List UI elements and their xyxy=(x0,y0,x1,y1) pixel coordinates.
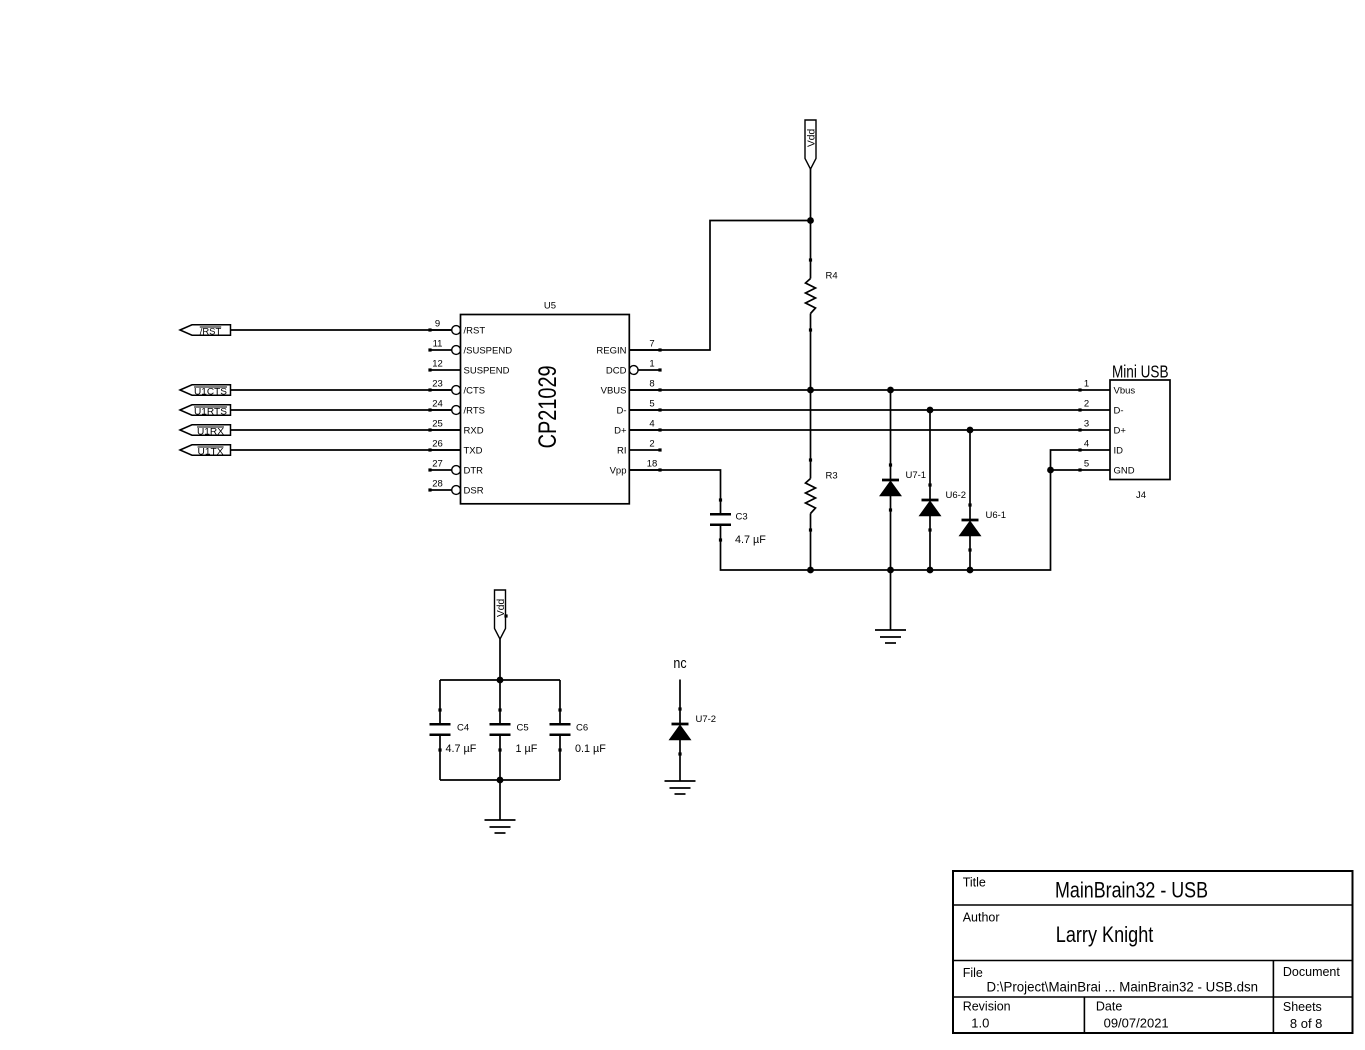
svg-text:VBUS: VBUS xyxy=(601,385,627,396)
svg-text:5: 5 xyxy=(649,398,654,409)
svg-text:U1RX: U1RX xyxy=(197,427,224,437)
svg-text:0.1 µF: 0.1 µF xyxy=(575,743,606,755)
svg-text:C4: C4 xyxy=(457,723,469,734)
svg-text:/RTS: /RTS xyxy=(464,405,485,416)
svg-text:Vdd: Vdd xyxy=(806,129,817,147)
svg-text:REGIN: REGIN xyxy=(596,345,626,356)
svg-text:RXD: RXD xyxy=(464,425,484,436)
svg-text:/CTS: /CTS xyxy=(464,385,486,396)
svg-text:4.7 µF: 4.7 µF xyxy=(735,534,766,546)
svg-text:4.7 µF: 4.7 µF xyxy=(446,743,477,755)
svg-text:09/07/2021: 09/07/2021 xyxy=(1104,1016,1169,1031)
svg-text:24: 24 xyxy=(432,398,443,409)
svg-text:Sheets: Sheets xyxy=(1283,1000,1322,1014)
svg-text:DSR: DSR xyxy=(464,485,484,496)
svg-text:U5: U5 xyxy=(544,301,556,312)
svg-text:D:\Project\MainBrai ... MainBr: D:\Project\MainBrai ... MainBrain32 - US… xyxy=(987,980,1259,995)
svg-text:23: 23 xyxy=(432,378,443,389)
svg-text:/RST: /RST xyxy=(464,325,486,336)
svg-text:18: 18 xyxy=(647,458,658,469)
svg-text:nc: nc xyxy=(673,656,686,672)
svg-text:4: 4 xyxy=(1084,438,1089,449)
svg-text:2: 2 xyxy=(649,438,654,449)
svg-text:DTR: DTR xyxy=(464,465,484,476)
svg-text:Vdd: Vdd xyxy=(496,599,507,617)
svg-text:Date: Date xyxy=(1096,1000,1122,1014)
svg-text:J4: J4 xyxy=(1136,490,1146,501)
svg-text:U7-2: U7-2 xyxy=(696,714,717,725)
svg-text:Vbus: Vbus xyxy=(1114,385,1136,396)
svg-text:/RST: /RST xyxy=(200,327,222,337)
svg-text:1 µF: 1 µF xyxy=(516,743,538,755)
svg-text:GND: GND xyxy=(1114,465,1135,476)
svg-text:R4: R4 xyxy=(826,271,838,282)
svg-text:4: 4 xyxy=(649,418,654,429)
svg-text:U1TX: U1TX xyxy=(198,447,224,457)
svg-text:ID: ID xyxy=(1114,445,1124,456)
svg-text:DCD: DCD xyxy=(606,365,627,376)
svg-text:7: 7 xyxy=(649,338,654,349)
svg-text:12: 12 xyxy=(432,358,443,369)
svg-text:27: 27 xyxy=(432,458,443,469)
svg-text:28: 28 xyxy=(432,478,443,489)
svg-text:1: 1 xyxy=(649,358,654,369)
svg-text:U6-2: U6-2 xyxy=(946,490,967,501)
svg-text:Title: Title xyxy=(963,876,986,890)
svg-text:8 of 8: 8 of 8 xyxy=(1290,1016,1323,1031)
svg-text:Revision: Revision xyxy=(963,1000,1011,1014)
svg-text:3: 3 xyxy=(1084,418,1089,429)
svg-text:D-: D- xyxy=(1114,405,1124,416)
svg-text:U1RTS: U1RTS xyxy=(194,407,227,417)
svg-text:Vpp: Vpp xyxy=(610,465,627,476)
svg-text:1: 1 xyxy=(1084,378,1089,389)
svg-text:25: 25 xyxy=(432,418,443,429)
svg-text:Mini USB: Mini USB xyxy=(1112,362,1169,382)
svg-text:5: 5 xyxy=(1084,458,1089,469)
svg-text:U7-1: U7-1 xyxy=(906,470,927,481)
svg-text:R3: R3 xyxy=(826,471,838,482)
svg-text:SUSPEND: SUSPEND xyxy=(464,365,510,376)
svg-text:MainBrain32 - USB: MainBrain32 - USB xyxy=(1055,878,1208,903)
svg-text:C5: C5 xyxy=(517,723,529,734)
svg-text:RI: RI xyxy=(617,445,627,456)
svg-text:11: 11 xyxy=(433,338,443,349)
svg-text:U1CTS: U1CTS xyxy=(194,387,227,397)
svg-text:Larry Knight: Larry Knight xyxy=(1056,922,1154,947)
svg-text:CP21029: CP21029 xyxy=(534,365,562,448)
svg-text:Document: Document xyxy=(1283,965,1340,979)
svg-text:2: 2 xyxy=(1084,398,1089,409)
svg-text:D+: D+ xyxy=(614,425,627,436)
svg-text:C6: C6 xyxy=(576,723,588,734)
svg-text:D+: D+ xyxy=(1114,425,1127,436)
svg-text:/SUSPEND: /SUSPEND xyxy=(464,345,513,356)
svg-text:D-: D- xyxy=(616,405,626,416)
svg-text:File: File xyxy=(963,966,983,980)
svg-text:8: 8 xyxy=(649,378,654,389)
svg-text:C3: C3 xyxy=(736,512,748,523)
svg-text:9: 9 xyxy=(435,318,440,329)
svg-text:U6-1: U6-1 xyxy=(986,510,1007,521)
svg-text:Author: Author xyxy=(963,911,1000,925)
svg-text:26: 26 xyxy=(432,438,443,449)
svg-text:1.0: 1.0 xyxy=(971,1016,989,1031)
svg-text:TXD: TXD xyxy=(464,445,483,456)
